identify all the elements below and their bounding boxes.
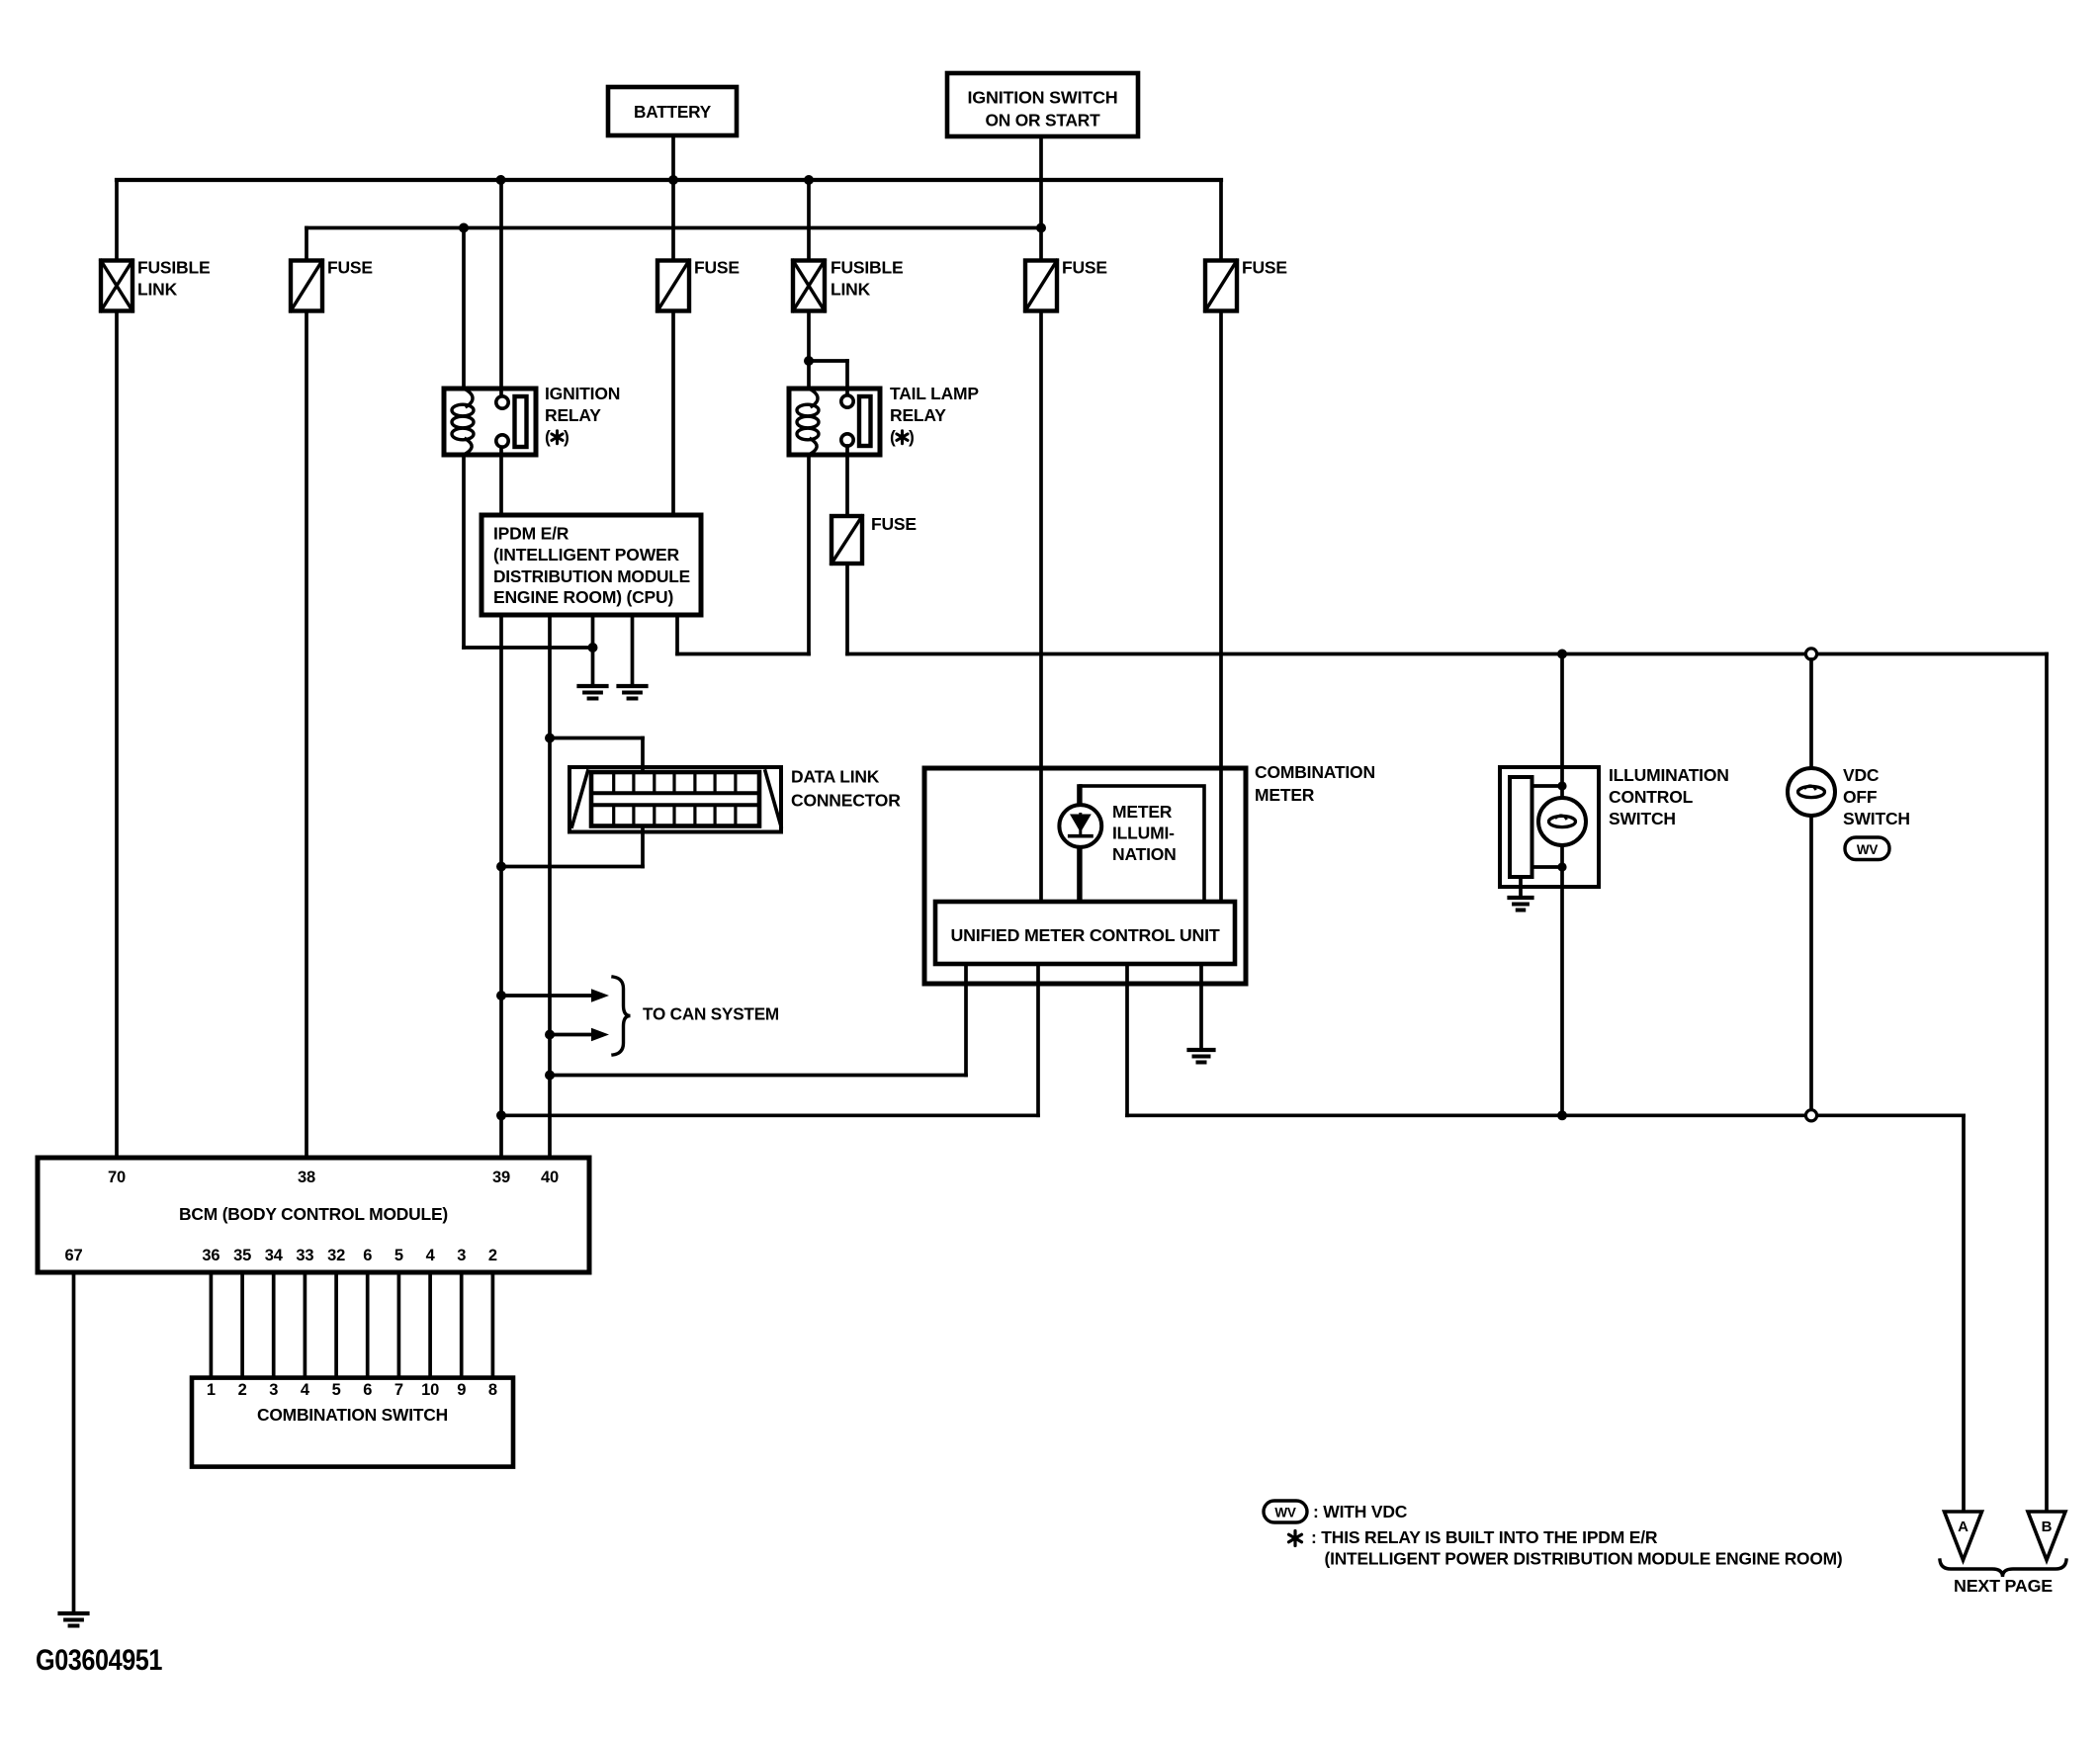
svg-text:34: 34: [265, 1247, 284, 1264]
svg-text:2: 2: [238, 1381, 247, 1399]
svg-text:DATA LINK: DATA LINK: [791, 767, 880, 787]
svg-text:2: 2: [488, 1247, 497, 1264]
svg-text:FUSE: FUSE: [1242, 258, 1287, 278]
svg-text:38: 38: [298, 1169, 315, 1186]
svg-text:40: 40: [541, 1169, 559, 1186]
svg-text:FUSE: FUSE: [694, 258, 740, 278]
svg-text:NEXT PAGE: NEXT PAGE: [1954, 1576, 2053, 1596]
svg-text:4: 4: [426, 1247, 436, 1264]
svg-text:UNIFIED METER CONTROL UNIT: UNIFIED METER CONTROL UNIT: [951, 925, 1221, 945]
svg-text:METER: METER: [1112, 802, 1173, 822]
svg-text:BATTERY: BATTERY: [634, 102, 712, 122]
svg-text:): ): [564, 427, 569, 447]
svg-text:3: 3: [457, 1247, 466, 1264]
svg-text:LINK: LINK: [137, 280, 178, 300]
svg-text:B: B: [2042, 1519, 2053, 1535]
svg-text:A: A: [1958, 1519, 1969, 1535]
svg-text:35: 35: [233, 1247, 251, 1264]
svg-text:METER: METER: [1255, 785, 1315, 805]
svg-text:70: 70: [108, 1169, 126, 1186]
svg-text:WV: WV: [1274, 1506, 1296, 1520]
svg-text:DISTRIBUTION MODULE: DISTRIBUTION MODULE: [493, 566, 690, 586]
svg-text:6: 6: [363, 1247, 372, 1264]
svg-text:ENGINE ROOM) (CPU): ENGINE ROOM) (CPU): [493, 587, 673, 607]
svg-text:RELAY: RELAY: [545, 405, 601, 425]
svg-text:4: 4: [301, 1381, 310, 1399]
svg-text:FUSIBLE: FUSIBLE: [831, 258, 903, 278]
svg-text:RELAY: RELAY: [890, 405, 946, 425]
svg-text:IGNITION SWITCH: IGNITION SWITCH: [968, 88, 1118, 108]
svg-text:COMBINATION: COMBINATION: [1255, 762, 1375, 782]
svg-text:5: 5: [332, 1381, 341, 1399]
svg-text:9: 9: [457, 1381, 466, 1399]
svg-text:FUSE: FUSE: [1062, 258, 1107, 278]
svg-text:OFF: OFF: [1843, 787, 1878, 807]
svg-text:: WITH VDC: : WITH VDC: [1313, 1502, 1408, 1521]
svg-text:TAIL LAMP: TAIL LAMP: [890, 384, 979, 403]
svg-text:32: 32: [327, 1247, 345, 1264]
svg-text:5: 5: [394, 1247, 403, 1264]
svg-text:TO CAN SYSTEM: TO CAN SYSTEM: [643, 1004, 779, 1024]
svg-text:ILLUMI-: ILLUMI-: [1112, 824, 1175, 843]
svg-text:6: 6: [363, 1381, 372, 1399]
svg-text:10: 10: [421, 1381, 439, 1399]
svg-text:FUSE: FUSE: [327, 258, 373, 278]
svg-text:LINK: LINK: [831, 280, 871, 300]
svg-text:FUSE: FUSE: [871, 514, 917, 534]
svg-text:G03604951: G03604951: [36, 1644, 162, 1677]
svg-text:IGNITION: IGNITION: [545, 384, 620, 403]
svg-text:ILLUMINATION: ILLUMINATION: [1609, 765, 1729, 785]
svg-text:(: (: [890, 427, 896, 447]
svg-text:(INTELLIGENT POWER DISTRIBUTIO: (INTELLIGENT POWER DISTRIBUTION MODULE E…: [1325, 1549, 1843, 1569]
svg-text:COMBINATION SWITCH: COMBINATION SWITCH: [257, 1405, 448, 1425]
svg-text:IPDM E/R: IPDM E/R: [493, 524, 569, 544]
svg-text:WV: WV: [1857, 842, 1879, 857]
svg-text:: THIS RELAY IS BUILT INTO THE: : THIS RELAY IS BUILT INTO THE IPDM E/R: [1311, 1527, 1658, 1547]
svg-text:ON OR START: ON OR START: [986, 111, 1100, 130]
svg-text:FUSIBLE: FUSIBLE: [137, 258, 210, 278]
svg-text:36: 36: [202, 1247, 219, 1264]
svg-text:(INTELLIGENT POWER: (INTELLIGENT POWER: [493, 545, 679, 565]
svg-text:8: 8: [488, 1381, 497, 1399]
svg-text:(: (: [545, 427, 551, 447]
svg-text:7: 7: [394, 1381, 403, 1399]
svg-text:1: 1: [207, 1381, 216, 1399]
svg-text:SWITCH: SWITCH: [1609, 809, 1676, 828]
svg-text:SWITCH: SWITCH: [1843, 809, 1910, 828]
svg-text:CONTROL: CONTROL: [1609, 787, 1694, 807]
svg-text:39: 39: [492, 1169, 510, 1186]
svg-text:VDC: VDC: [1843, 765, 1880, 785]
svg-text:33: 33: [296, 1247, 313, 1264]
svg-text:NATION: NATION: [1112, 844, 1177, 864]
svg-text:3: 3: [269, 1381, 278, 1399]
svg-text:CONNECTOR: CONNECTOR: [791, 791, 901, 811]
svg-text:BCM (BODY CONTROL MODULE): BCM (BODY CONTROL MODULE): [179, 1204, 448, 1224]
svg-text:67: 67: [65, 1247, 83, 1264]
svg-text:): ): [909, 427, 915, 447]
